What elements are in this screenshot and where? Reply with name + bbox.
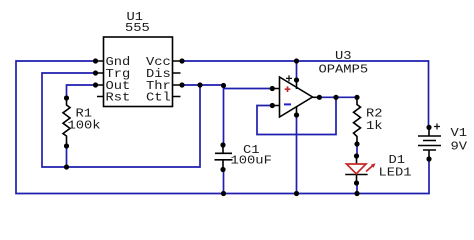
- svg-text:1k: 1k: [366, 119, 383, 133]
- svg-text:Rst: Rst: [105, 90, 130, 104]
- svg-text:100uF: 100uF: [231, 153, 272, 167]
- svg-text:Ctl: Ctl: [146, 90, 171, 104]
- svg-text:555: 555: [125, 21, 150, 35]
- svg-text:OPAMP5: OPAMP5: [319, 62, 369, 76]
- svg-text:V1: V1: [450, 126, 467, 140]
- svg-text:9V: 9V: [450, 139, 467, 153]
- svg-text:LED1: LED1: [378, 165, 411, 179]
- svg-text:100k: 100k: [68, 118, 101, 132]
- svg-text:U3: U3: [335, 49, 352, 63]
